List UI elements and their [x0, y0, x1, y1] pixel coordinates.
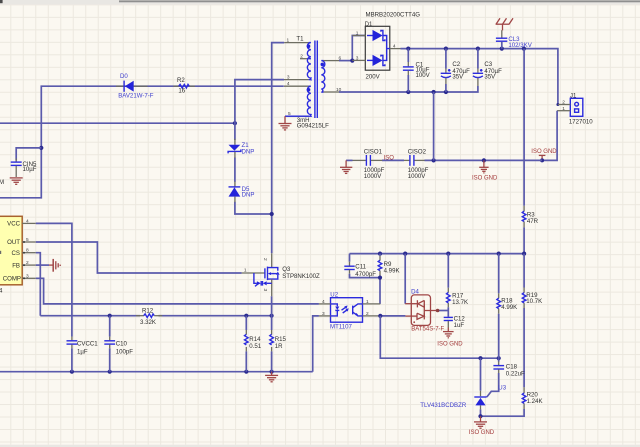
- capacitor CVCC1 1uF: [67, 337, 99, 372]
- svg-text:OUT: OUT: [7, 239, 20, 246]
- power port ISO GND at J1: [531, 149, 557, 162]
- capacitor C2 470uF 35V: [441, 49, 470, 92]
- svg-text:3: 3: [356, 55, 359, 61]
- resistor R3 47R: [522, 206, 538, 228]
- shunt regulator U3 TLV431BCDBZR: [420, 358, 506, 418]
- capacitor CISO1 1000pF 1000V: [353, 148, 385, 180]
- svg-text:4.99K: 4.99K: [501, 304, 517, 311]
- svg-text:4: 4: [393, 44, 396, 50]
- wire T1 pin3 to clamp: [235, 80, 284, 140]
- svg-text:M: M: [0, 179, 4, 186]
- svg-text:200V: 200V: [366, 74, 381, 81]
- diode D4 BAT54S-7-F: [405, 289, 444, 333]
- svg-text:1: 1: [562, 106, 565, 112]
- svg-text:CISO1: CISO1: [364, 148, 383, 155]
- wire T1 pin1 to Q3 drain: [270, 43, 285, 254]
- svg-text:1727010: 1727010: [569, 119, 593, 126]
- wire D4 output to R17/C12: [431, 309, 449, 313]
- resistor R18 4.99K: [497, 254, 517, 359]
- wire snubber net y=86 (D0/R2 to T1 pin4): [0, 86, 284, 198]
- wire CS to sense rail: [36, 253, 41, 316]
- svg-text:U3: U3: [498, 384, 506, 391]
- svg-text:T1: T1: [296, 35, 304, 42]
- svg-text:1000V: 1000V: [364, 173, 383, 180]
- svg-text:10.7K: 10.7K: [526, 298, 542, 305]
- svg-text:0.22uF: 0.22uF: [506, 371, 525, 378]
- ground at T1 pin5: [279, 116, 292, 130]
- optocoupler U2 MT1107: [319, 291, 380, 330]
- svg-text:MBRB20200CTT4G: MBRB20200CTT4G: [366, 12, 421, 19]
- ground ISO GND below rail: [472, 160, 498, 181]
- resistor R20 1.24K: [522, 387, 542, 409]
- svg-text:3: 3: [287, 75, 290, 81]
- ground at CIN5: [10, 178, 23, 184]
- svg-text:C10: C10: [116, 340, 128, 347]
- svg-text:BAT54S-7-F: BAT54S-7-F: [411, 327, 444, 333]
- svg-text:C11: C11: [355, 263, 366, 270]
- svg-text:100V: 100V: [416, 72, 431, 79]
- svg-text:47R: 47R: [527, 218, 539, 225]
- wire sense rail y=315.7: [40, 314, 273, 318]
- svg-text:4: 4: [287, 81, 290, 87]
- svg-text:COMP: COMP: [3, 276, 21, 283]
- svg-text:16: 16: [178, 88, 185, 95]
- resistor R9 4.99K: [378, 254, 400, 304]
- svg-text:8: 8: [26, 248, 29, 254]
- svg-text:102/3KV: 102/3KV: [508, 42, 532, 49]
- diode bridge D1 MBRB20200CTT4G: [352, 12, 420, 81]
- svg-text:2: 2: [562, 99, 565, 105]
- chassis ground above CL3: [496, 18, 513, 30]
- svg-text:10µF: 10µF: [23, 166, 37, 173]
- resistor R2 16: [173, 77, 195, 95]
- svg-text:35V: 35V: [452, 74, 464, 81]
- svg-text:100pF: 100pF: [116, 349, 134, 356]
- ground ISO GND below U3: [469, 416, 495, 436]
- svg-text:1000V: 1000V: [408, 173, 427, 180]
- capacitor CIN5: [11, 159, 37, 178]
- svg-text:2: 2: [262, 258, 268, 261]
- wire T1 pin6 to D1: [339, 36, 365, 63]
- wire right feedback vertical x=524.1: [481, 49, 525, 417]
- svg-text:4: 4: [322, 299, 325, 305]
- svg-text:TLV431BCDBZR: TLV431BCDBZR: [420, 402, 467, 409]
- svg-text:1: 1: [287, 38, 290, 44]
- svg-text:ISO GND: ISO GND: [531, 149, 557, 155]
- zener Z1 DNP: [228, 139, 254, 158]
- resistor R19 10.7K: [522, 254, 542, 309]
- svg-text:1uF: 1uF: [454, 322, 465, 329]
- resistor R15 1R: [270, 296, 287, 372]
- window bottom bar: [0, 445, 640, 447]
- wire ISO rail y=160.4: [346, 158, 542, 162]
- svg-text:2: 2: [366, 311, 369, 317]
- transformer T1: [284, 35, 342, 129]
- svg-text:1: 1: [244, 268, 247, 274]
- svg-text:4700pF: 4700pF: [355, 271, 376, 278]
- capacitor CL3 102/3KV: [496, 30, 533, 49]
- svg-text:2: 2: [300, 54, 303, 60]
- svg-text:R12: R12: [142, 308, 154, 315]
- transistor Q3 STP8NK100Z: [242, 253, 320, 296]
- wire U2 pin2 node: [378, 314, 501, 361]
- svg-text:ISO GND: ISO GND: [469, 430, 495, 436]
- svg-text:STP8NK100Z: STP8NK100Z: [282, 273, 320, 280]
- window top bar: [0, 0, 640, 5]
- wire main +V rail y=48.6: [401, 47, 560, 107]
- svg-text:ISO GND: ISO GND: [472, 176, 498, 182]
- svg-text:1: 1: [366, 299, 369, 305]
- earth ground at ISO rail left end: [340, 160, 352, 173]
- svg-text:2: 2: [26, 260, 29, 266]
- capacitor C18 0.22uF: [493, 358, 525, 378]
- wire bulk net y=123: [0, 121, 237, 125]
- svg-text:DNP: DNP: [242, 192, 255, 199]
- capacitor CISO2 1000pF 1000V: [404, 148, 429, 180]
- capacitor C12 1uF: [444, 316, 466, 330]
- wire between Z1 and D5: [234, 158, 236, 182]
- wire D5 to drain node: [235, 202, 272, 214]
- wire regulated rail y=253.6: [350, 252, 527, 256]
- svg-text:MT1107: MT1107: [330, 324, 353, 331]
- IC U4 controller (clipped at left edge): [0, 216, 36, 294]
- wire ground rail y=371.7: [0, 370, 313, 374]
- diode D0 BAV21W-7-F: [116, 73, 154, 100]
- svg-text:CISO2: CISO2: [408, 148, 427, 155]
- svg-text:4.99K: 4.99K: [384, 268, 400, 275]
- svg-text:13.7K: 13.7K: [452, 299, 468, 306]
- capacitor C10 100pF: [104, 316, 133, 372]
- svg-text:3: 3: [322, 311, 325, 317]
- svg-text:DNP: DNP: [242, 148, 255, 155]
- svg-text:3: 3: [26, 273, 29, 279]
- capacitor C11 4700pF: [344, 254, 380, 278]
- wire VCC to CVCC1: [36, 223, 72, 336]
- svg-text:C18: C18: [506, 364, 518, 371]
- wire OUT to Q3 gate: [36, 242, 242, 273]
- resistor R17 13.7K: [447, 254, 469, 317]
- ground ISO GND below C12: [437, 328, 463, 348]
- svg-text:R2: R2: [177, 77, 185, 84]
- svg-text:CVCC1: CVCC1: [77, 340, 98, 347]
- svg-text:4: 4: [26, 218, 29, 224]
- svg-text:35V: 35V: [484, 74, 496, 81]
- svg-text:1µF: 1µF: [77, 349, 88, 356]
- wire rail to D4: [404, 254, 406, 304]
- wire FB stub: [36, 264, 49, 266]
- svg-text:CS: CS: [12, 250, 20, 257]
- connector J1 1727010: [557, 92, 593, 125]
- net label fragment M: [0, 179, 4, 186]
- wire C3 return drop to ISO rail: [433, 92, 435, 160]
- power ground below R15: [265, 372, 278, 382]
- svg-text:ISO: ISO: [384, 156, 395, 162]
- svg-text:3.32K: 3.32K: [140, 319, 156, 326]
- diode D5 DNP: [229, 182, 255, 203]
- wire U2 pin3 to ground rail: [313, 316, 319, 372]
- net label ISO: [384, 156, 395, 162]
- wire COMP to opto: [36, 278, 319, 304]
- wire CIN5 branch: [16, 148, 41, 161]
- capacitor C3 470uF 35V: [473, 49, 502, 86]
- capacitor C1 10uF 100V: [403, 49, 431, 92]
- power port at FB (sideways ground): [49, 259, 60, 272]
- svg-text:1R: 1R: [275, 343, 283, 350]
- svg-text:1: 1: [356, 31, 359, 37]
- svg-text:FB: FB: [12, 262, 20, 269]
- svg-text:VCC: VCC: [7, 221, 20, 228]
- wire J1 pin1 to ISO rail: [542, 111, 557, 161]
- svg-text:BAV21W-7-F: BAV21W-7-F: [118, 93, 154, 100]
- svg-text:1.24K: 1.24K: [527, 398, 543, 405]
- wire C18 to TLV431 ref: [487, 373, 499, 397]
- svg-text:D0: D0: [120, 73, 128, 80]
- junction VCC-diode node: [39, 146, 43, 150]
- svg-text:5: 5: [26, 237, 29, 243]
- svg-text:0.51: 0.51: [249, 343, 261, 350]
- resistor R14 0.51: [245, 316, 262, 372]
- svg-text:G094215LF: G094215LF: [297, 123, 329, 130]
- svg-text:ISO GND: ISO GND: [437, 342, 463, 348]
- wire secondary return rail y=92: [339, 86, 478, 94]
- resistor R12 3.32K: [136, 308, 162, 326]
- svg-text:3: 3: [262, 289, 268, 292]
